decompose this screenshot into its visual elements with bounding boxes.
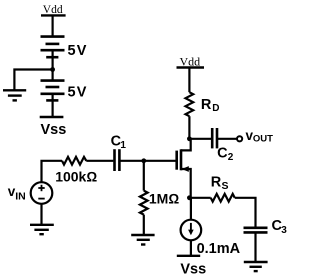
Vdd terminal bar	[177, 66, 205, 68]
svg-text:S: S	[222, 180, 229, 192]
wire	[190, 198, 192, 220]
capacitor C3	[244, 228, 268, 233]
source vin (input voltage source)	[31, 182, 53, 204]
wire	[40, 204, 42, 225]
svg-text:1MΩ: 1MΩ	[149, 191, 179, 207]
current source I1	[181, 220, 202, 241]
wire	[143, 161, 145, 191]
wire	[86, 160, 113, 162]
svg-text:OUT: OUT	[253, 133, 273, 144]
node gate junction dot	[141, 158, 146, 163]
Vss terminal bar	[40, 116, 64, 118]
terminal vout (open circle)	[237, 136, 242, 141]
ground (supply midpoint)	[3, 90, 26, 100]
svg-text:1: 1	[120, 140, 126, 151]
wire	[51, 100, 53, 117]
transistor channel bar	[180, 149, 183, 170]
wire	[235, 198, 256, 228]
source arrowhead	[182, 166, 189, 172]
wire	[188, 68, 190, 93]
svg-text:2: 2	[228, 152, 234, 163]
battery B2 5V	[41, 81, 65, 101]
svg-text:D: D	[212, 103, 219, 114]
Vdd terminal bar	[41, 14, 66, 16]
minus sign	[38, 198, 44, 200]
wire	[143, 215, 145, 235]
svg-text:3: 3	[281, 225, 287, 236]
source lead	[181, 169, 191, 198]
battery B1 5V	[41, 37, 65, 58]
svg-text:C: C	[217, 146, 228, 162]
drain lead	[181, 139, 191, 151]
junction dot	[50, 67, 55, 72]
svg-text:0.1mA: 0.1mA	[197, 241, 241, 257]
svg-text:Vss: Vss	[180, 261, 206, 277]
plus sign	[38, 185, 44, 191]
resistor RS	[211, 194, 235, 202]
wire	[189, 197, 210, 199]
svg-text:R: R	[211, 175, 222, 191]
current source arrow	[190, 223, 192, 231]
resistor 1M	[140, 191, 148, 215]
svg-text:R: R	[201, 97, 212, 113]
capacitor C1	[115, 149, 120, 171]
ground (C3)	[244, 262, 268, 271]
node source junction dot	[187, 195, 192, 200]
wire	[254, 232, 256, 262]
node drain junction dot	[187, 136, 192, 141]
svg-text:IN: IN	[15, 191, 26, 203]
wire	[120, 160, 176, 162]
capacitor C2	[212, 128, 217, 148]
wire	[42, 161, 63, 182]
svg-text:100kΩ: 100kΩ	[55, 169, 97, 185]
svg-text:Vss: Vss	[41, 122, 67, 138]
svg-text:5V: 5V	[68, 85, 88, 101]
wire	[218, 138, 237, 140]
Vss terminal bar	[177, 255, 200, 257]
wire to ground	[14, 70, 52, 91]
resistor 100k	[62, 157, 86, 165]
ground (vin source)	[30, 225, 54, 234]
svg-text:5V: 5V	[68, 43, 88, 59]
transistor Q1 (NMOS) gate bar	[175, 151, 178, 170]
wire	[51, 57, 53, 80]
ground (1M resistor)	[131, 235, 154, 245]
wire	[188, 116, 190, 139]
resistor RD	[186, 92, 194, 116]
wire	[51, 15, 53, 37]
wire	[189, 138, 211, 140]
wire	[190, 240, 192, 256]
